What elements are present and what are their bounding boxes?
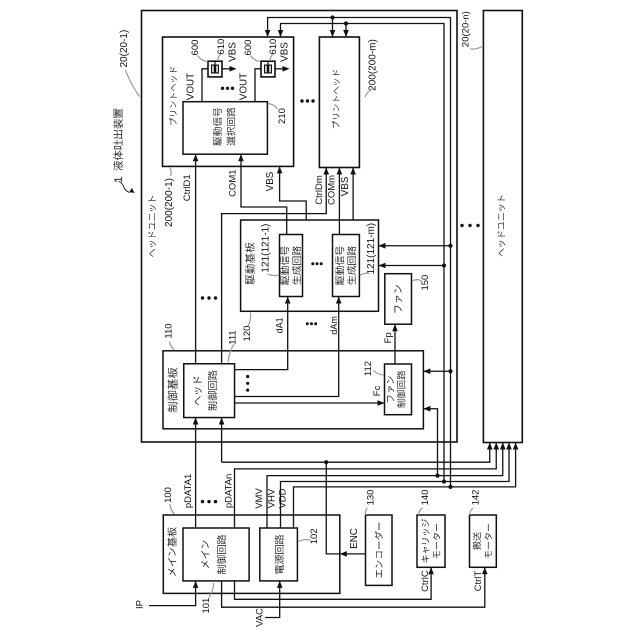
svg-text:140: 140 [420,490,431,506]
svg-text:Fp: Fp [383,332,394,343]
svg-text:111: 111 [227,330,238,344]
svg-text:100: 100 [163,487,174,503]
svg-text:102: 102 [309,528,320,544]
svg-text:142: 142 [471,490,482,506]
svg-text:IP: IP [135,600,146,609]
svg-text:pDATAn: pDATAn [224,474,235,509]
svg-text:600: 600 [243,40,254,56]
svg-text:20(20-1): 20(20-1) [119,30,130,68]
svg-text:Fc: Fc [372,385,383,396]
svg-text:200(200-m): 200(200-m) [368,39,379,91]
svg-text:VBS: VBS [280,42,291,62]
svg-text:VBS: VBS [265,171,276,191]
svg-text:121(121-1): 121(121-1) [261,224,272,273]
svg-text:CtrlC: CtrlC [420,570,431,592]
svg-text:150: 150 [420,275,431,291]
svg-text:dA1: dA1 [275,317,285,333]
svg-text:CtrlT: CtrlT [473,571,484,592]
svg-text:VMV: VMV [254,488,265,509]
svg-text:VOUT: VOUT [238,73,249,100]
svg-text:110: 110 [164,323,175,338]
svg-text:600: 600 [190,40,201,56]
svg-text:120: 120 [242,326,253,342]
svg-text:dAm: dAm [329,316,339,335]
svg-text:CtrlDm: CtrlDm [314,175,325,205]
svg-text:COM1: COM1 [227,169,238,196]
svg-text:130: 130 [365,490,376,506]
svg-text:101: 101 [201,598,212,614]
svg-text:VOUT: VOUT [185,73,196,100]
svg-text:VHV: VHV [266,488,277,508]
svg-text:200(200-1): 200(200-1) [164,178,175,227]
svg-text:ENC: ENC [349,528,360,549]
svg-text:112: 112 [363,361,374,376]
svg-text:20(20-n): 20(20-n) [461,11,472,47]
svg-text:121(121-m): 121(121-m) [366,223,377,275]
svg-text:VBS: VBS [228,42,239,62]
svg-text:CtrlD1: CtrlD1 [182,174,193,201]
svg-text:VBS: VBS [340,176,351,196]
svg-text:VAC: VAC [254,608,265,627]
svg-text:610: 610 [216,39,227,55]
svg-text:610: 610 [268,39,279,55]
svg-text:VDD: VDD [278,488,289,508]
svg-text:pDATA1: pDATA1 [183,474,194,509]
svg-text:COMm: COMm [327,175,338,205]
svg-text:210: 210 [277,108,288,124]
